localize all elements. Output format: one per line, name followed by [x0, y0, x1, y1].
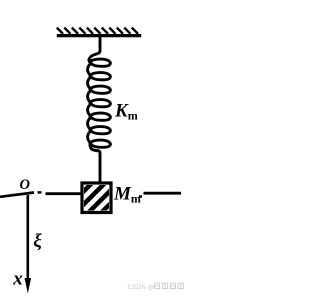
dash-dot axis line: dot [38, 191, 42, 193]
spring Km (coil + stems) [88, 37, 111, 183]
watermark CSDN [128, 283, 184, 291]
mass block Mm [59, 180, 134, 216]
svg-text:ξ: ξ [33, 231, 42, 252]
svg-text:CSDN @: CSDN @ [128, 284, 155, 291]
ceiling hatching [57, 28, 138, 34]
dash-dot axis line: segment to block [46, 192, 82, 195]
dash-dot axis line: right dash [144, 192, 182, 195]
dash-dot axis line: dot right of block [139, 195, 142, 197]
svg-text:O: O [20, 177, 31, 193]
ceiling line [57, 34, 141, 37]
arrowhead of x axis [25, 278, 32, 294]
dash-dot axis line: left segment [0, 193, 34, 197]
svg-text:x: x [12, 269, 23, 290]
xi axis line [26, 195, 29, 280]
